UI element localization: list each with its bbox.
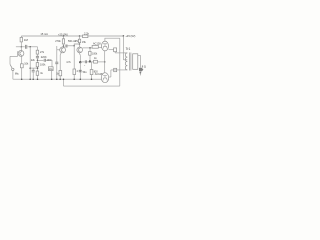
wire T3 to R10	[83, 47, 93, 49]
node dot x37 link	[37, 67, 39, 69]
svg-text:15 mA: 15 mA	[40, 32, 48, 36]
svg-text:100k: 100k	[92, 53, 98, 56]
wire jog up and right	[74, 44, 79, 46]
wire T4 emitter down	[104, 51, 106, 62]
wire divider leg x30	[29, 47, 31, 79]
wire C9 top	[79, 62, 81, 70]
wire C3 down	[37, 58, 39, 63]
node dot jog	[73, 45, 75, 47]
wire leg x56	[56, 46, 58, 62]
resistor R7	[59, 71, 62, 76]
wire secondary top lead	[138, 56, 141, 68]
wire coupling row y60	[38, 59, 44, 61]
wire R14 down stub	[114, 52, 116, 53]
capacitor C7 plates	[66, 45, 67, 48]
resistor R10	[92, 45, 98, 48]
capacitor C4 plates	[44, 59, 45, 62]
svg-text:Tr1: Tr1	[126, 47, 131, 51]
speaker body	[139, 68, 142, 72]
node dot row A x30	[29, 46, 31, 48]
svg-text:1k: 1k	[94, 57, 97, 60]
wire T5 right lead	[109, 76, 111, 78]
svg-text:27k: 27k	[40, 51, 45, 54]
node dot x37 coupling	[37, 60, 39, 62]
node dot R11 top	[89, 47, 91, 49]
capacitor C9 plates	[79, 70, 82, 72]
node dot rail x30	[29, 78, 31, 80]
svg-text:100k: 100k	[40, 63, 46, 66]
node dot rail x80	[80, 78, 82, 80]
wire bypass leg top	[32, 68, 34, 70]
wire C9 to rail	[79, 72, 81, 79]
wire R7 to rail	[59, 76, 61, 79]
wire bypass leg bottom	[32, 72, 34, 79]
transistor T2	[60, 47, 66, 53]
wire T3 emitter down	[79, 55, 81, 62]
wire center tap	[123, 59, 127, 61]
svg-text:4.7k: 4.7k	[66, 61, 71, 64]
transistor T5 power	[101, 73, 108, 83]
transformer Tr1 primary winding	[125, 53, 127, 70]
capacitor C6 plates	[55, 62, 58, 64]
svg-text:50u: 50u	[83, 71, 88, 74]
node dot rail x33	[32, 78, 34, 80]
svg-text:8 Ω: 8 Ω	[142, 64, 146, 68]
capacitor C5 box	[48, 67, 53, 71]
resistor R15 inline on rail	[83, 35, 88, 38]
switch pivot circle	[12, 68, 14, 70]
transistor T1	[18, 51, 24, 57]
resistor R12	[94, 60, 98, 63]
wire rail end leg	[122, 36, 124, 60]
wire T5 base down from node	[104, 62, 106, 73]
wire bottom rail	[13, 78, 101, 80]
resistor R1	[20, 37, 22, 42]
node dot rail x74	[73, 78, 75, 80]
svg-text:1M: 1M	[24, 38, 29, 42]
svg-text:Mic: Mic	[15, 73, 20, 76]
wire loop vertical	[119, 38, 121, 86]
node dot rail x37	[37, 78, 39, 80]
wire R3 to C3	[37, 54, 39, 56]
svg-text:AC128: AC128	[95, 73, 103, 76]
wire cross link	[30, 67, 37, 69]
wire primary top lead	[115, 52, 127, 54]
capacitor C1 plates	[25, 45, 26, 49]
node dot rail x63	[63, 78, 65, 80]
wire R12 to T5 node	[98, 61, 105, 63]
wire T2 base	[57, 49, 60, 51]
svg-text:1k: 1k	[40, 72, 43, 75]
wire C5 to rail	[51, 71, 53, 80]
node dot rail x91	[91, 78, 93, 80]
wire R11 leg top	[89, 48, 91, 52]
node dot R11 bottom big	[89, 60, 91, 62]
node dot emitter big	[79, 61, 81, 63]
wire C7 to jog	[68, 45, 75, 47]
wire T2 emitter diag	[60, 53, 61, 55]
wire R11 leg bottom	[89, 55, 91, 62]
wire T2 emitter down	[59, 55, 61, 71]
svg-text:+25 (9V): +25 (9V)	[58, 33, 68, 37]
resistor R11	[89, 51, 92, 55]
wire C4 to corner	[46, 60, 52, 67]
capacitor C2 plates	[32, 70, 35, 72]
wire T3 emitter diag	[79, 53, 80, 56]
wire pivot to rail	[12, 71, 14, 80]
capacitor C3 plates	[36, 56, 39, 58]
resistor R13	[90, 70, 93, 75]
capacitor C8 plates	[85, 60, 86, 63]
wire R4 down	[37, 67, 39, 71]
svg-text:10k: 10k	[24, 62, 29, 65]
wire T4 top lead	[105, 38, 120, 41]
wire R6 to node	[62, 44, 64, 46]
resistor R14	[114, 48, 117, 52]
resistor R8	[73, 69, 76, 75]
transistor T3	[77, 47, 83, 53]
wire rail corner down to R1	[20, 36, 22, 37]
wire T4 right lead	[109, 49, 114, 51]
node dot T5 feed	[104, 61, 106, 63]
wire R10 to T4	[98, 46, 101, 48]
wire top supply rail right segment	[88, 35, 124, 37]
wire downleg x74	[73, 46, 75, 69]
wire C6 to rail	[56, 64, 58, 79]
wire T1 base input	[10, 55, 18, 57]
switch lever input	[10, 64, 12, 68]
resistor R4	[36, 63, 39, 67]
wire R5 to rail	[37, 75, 39, 79]
node dot rail at R9	[79, 35, 81, 37]
wire loop riser	[63, 79, 65, 86]
wire loop bottom	[64, 85, 120, 87]
resistor R9	[78, 39, 80, 42]
resistor R5	[36, 71, 39, 75]
node dot rail x60	[59, 78, 61, 80]
wire rail to R6	[62, 36, 64, 39]
node dot x30 link	[29, 67, 31, 69]
node A dot	[21, 46, 23, 48]
svg-text:+: +	[84, 65, 86, 67]
svg-text:2.2k: 2.2k	[84, 32, 90, 36]
node dot T2 collector	[63, 45, 65, 47]
resistor R3	[36, 50, 39, 54]
wire emitter row y62	[80, 61, 84, 63]
svg-text:+45 (9V): +45 (9V)	[125, 34, 135, 38]
transistor T4 power	[102, 41, 109, 51]
wire C8 to R12	[87, 61, 93, 63]
node dot rail x51	[51, 78, 53, 80]
wire node row A right	[27, 46, 37, 48]
node dot rail right end	[123, 35, 125, 37]
node dot speaker	[140, 72, 142, 74]
wire R2 to rail	[21, 68, 23, 79]
node dot T3 top	[79, 43, 81, 45]
wire T1 collector stub	[20, 47, 22, 51]
wire R1 to node A	[20, 42, 22, 47]
speaker cone	[142, 68, 144, 72]
capacitor C10 box inline	[114, 68, 117, 71]
wire R8 to rail	[73, 75, 75, 80]
wire speaker stub	[139, 71, 141, 75]
svg-text:22k: 22k	[31, 59, 36, 62]
resistor R6	[62, 39, 64, 44]
svg-text:AC128: AC128	[93, 42, 101, 45]
wire rail to R9	[79, 36, 81, 39]
node dot rail T1 leg	[21, 78, 23, 80]
wire R9 to T3	[79, 43, 81, 48]
svg-text:270k: 270k	[55, 40, 61, 43]
resistor R2	[21, 64, 24, 68]
wire T1 emitter down	[21, 56, 23, 64]
node dot rail x56	[56, 78, 58, 80]
wire primary bottom lead	[111, 69, 127, 71]
wire T2 collector stub	[63, 46, 65, 47]
wire node row A left	[16, 46, 25, 48]
wire R13 top	[91, 62, 93, 70]
wire top supply rail left segment	[21, 35, 82, 37]
wire R13 to rail	[91, 75, 93, 80]
transformer Tr1 core	[129, 53, 131, 71]
node dot rail at R6	[63, 35, 65, 37]
svg-text:15k: 15k	[82, 41, 87, 44]
wire chain x37 top	[37, 47, 39, 50]
wire T1 base lead	[17, 51, 19, 56]
wire T5 collector riser	[110, 70, 112, 77]
wire input drop	[9, 56, 11, 64]
transformer Tr1 secondary	[133, 54, 138, 70]
